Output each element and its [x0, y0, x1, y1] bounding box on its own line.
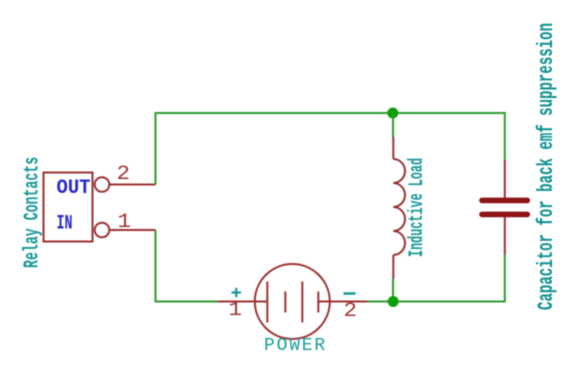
- wire capacitor top riser: [504, 112, 506, 161]
- svg-text:POWER: POWER: [264, 336, 327, 356]
- capacitor (back emf suppression): [482, 160, 527, 255]
- inductor (Inductive Load): [393, 137, 405, 279]
- svg-text:Inductive Load: Inductive Load: [405, 158, 428, 257]
- svg-text:2: 2: [117, 163, 131, 186]
- power pin 1 lead: [218, 301, 255, 303]
- relay pin 1 circle: [95, 223, 110, 238]
- relay pin 2 lead: [109, 184, 155, 186]
- wire bottom rail right of power: [368, 301, 506, 303]
- relay pin 1 lead: [109, 229, 155, 231]
- wire riser from pin 2: [155, 112, 157, 185]
- junction node bottom: [388, 296, 399, 307]
- svg-text:2: 2: [344, 300, 358, 323]
- svg-text:IN: IN: [57, 213, 73, 236]
- svg-text:Capacitor for back emf suppres: Capacitor for back emf suppression: [534, 23, 559, 310]
- wire riser from pin 1 to bottom rail: [156, 230, 219, 302]
- svg-text:1: 1: [118, 211, 132, 234]
- wire top horizontal: [155, 112, 506, 114]
- svg-text:1: 1: [229, 299, 243, 322]
- relay pin 2 circle: [95, 177, 110, 192]
- svg-text:OUT: OUT: [57, 177, 91, 200]
- power pin 2 lead: [330, 301, 368, 303]
- power source (battery in circle): [255, 264, 330, 339]
- power plus sign: [232, 288, 242, 297]
- svg-text:Relay Contacts: Relay Contacts: [21, 157, 45, 268]
- wire capacitor bottom riser: [504, 254, 506, 303]
- junction node top: [387, 108, 398, 119]
- wire inductor bottom stub: [392, 278, 394, 302]
- relay contacts box: [44, 173, 93, 242]
- wire inductor top stub: [392, 113, 394, 138]
- power minus sign: [344, 292, 356, 295]
